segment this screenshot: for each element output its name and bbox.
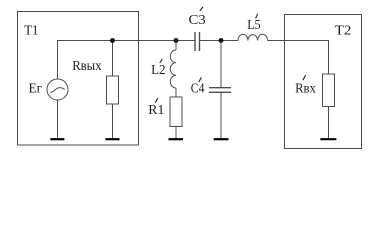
ground under C4 <box>214 138 229 140</box>
svg-text:T1: T1 <box>24 23 38 38</box>
node dot above L2 <box>174 38 179 43</box>
capacitor C4 plate top <box>209 87 231 89</box>
prime of L5 <box>256 14 258 18</box>
resistor R1 <box>170 97 182 127</box>
source Eg circle <box>47 79 68 100</box>
svg-text:L5: L5 <box>247 18 260 33</box>
wire node to C4 <box>220 41 222 88</box>
svg-text:Rвых: Rвых <box>72 59 101 74</box>
capacitor C3 plate right <box>199 32 201 51</box>
capacitor C4 plate bottom <box>209 91 231 93</box>
ground under Eg <box>50 138 64 140</box>
wire top horizontal right segment (L5 to T2 corner) <box>268 41 329 75</box>
ground under R1 <box>169 138 184 140</box>
svg-text:Ег: Ег <box>29 82 43 97</box>
prime of Rvh <box>303 75 306 80</box>
svg-text:R1: R1 <box>148 103 164 118</box>
wire top horizontal left segment <box>58 41 195 80</box>
svg-text:L2: L2 <box>151 63 166 78</box>
wire R1 to ground <box>175 127 177 139</box>
wire C4 to ground <box>220 92 222 138</box>
svg-text:Rвх: Rвх <box>295 82 316 97</box>
prime of C3 <box>200 7 203 11</box>
wire top horizontal middle segment (C3 to L5) <box>200 40 239 42</box>
wire to Rvyh <box>112 41 114 77</box>
inductor L5 (horizontal, bumps up) <box>238 34 268 40</box>
ground under Rvh <box>320 138 336 140</box>
svg-text:C3: C3 <box>189 13 206 28</box>
wire Eg to ground <box>57 100 59 138</box>
svg-text:T2: T2 <box>335 24 352 39</box>
resistor Rvh <box>323 74 335 107</box>
resistor Rvyh <box>107 76 119 104</box>
svg-text:C4: C4 <box>191 82 205 97</box>
wire Rvyh to ground <box>112 104 114 138</box>
node dot above C4 <box>219 38 224 43</box>
T1 box <box>18 12 139 146</box>
prime of L2 <box>160 59 162 63</box>
wire L2 to R1 <box>175 88 177 97</box>
capacitor C3 plate left <box>194 32 196 51</box>
prime of C4 <box>199 77 201 82</box>
prime of R1 <box>155 98 158 103</box>
inductor L2 (vertical, bumps left) <box>170 50 176 88</box>
wire Rvh to ground <box>328 107 330 139</box>
source Eg sine <box>50 88 65 93</box>
ground under Rvyh <box>106 138 120 140</box>
wire node to L2 <box>175 41 177 51</box>
node dot above Rvyh <box>110 38 115 43</box>
T2 box <box>285 15 362 149</box>
